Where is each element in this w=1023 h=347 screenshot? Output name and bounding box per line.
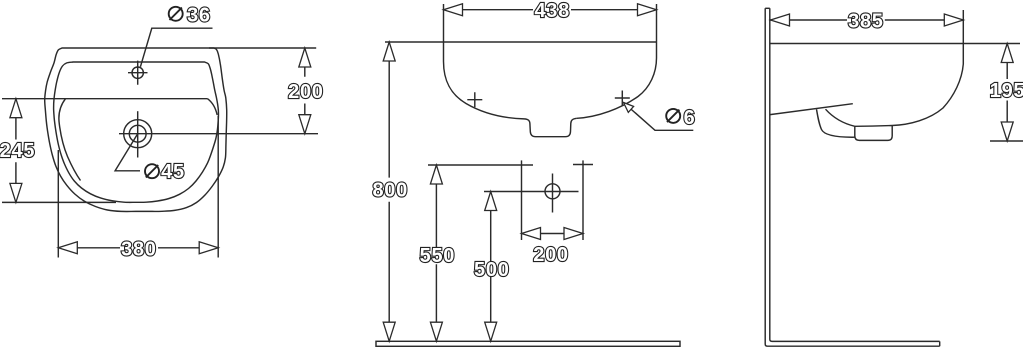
dimension 438 right extension line: [656, 4, 658, 42]
dimension 245 line: [15, 99, 17, 203]
basin deck line (back ledge edge / 245 top extension): [2, 98, 208, 100]
leader line to Ø36: [140, 28, 212, 67]
dimension 385 right extension line: [962, 10, 964, 44]
svg-text:195: 195: [990, 80, 1023, 102]
dimension 380 arrow right: [199, 242, 218, 254]
dimension 550 top extension line: [428, 164, 533, 166]
dimension 438 arrow right: [638, 4, 657, 16]
dimension 500 arrow down: [485, 322, 497, 341]
dimension 200 arrow left (middle): [522, 228, 541, 240]
dimension 195 arrow up: [1001, 44, 1013, 63]
Ø36 diameter symbol: [169, 7, 183, 21]
svg-text:380: 380: [121, 238, 156, 260]
svg-text:36: 36: [187, 5, 211, 27]
dimension 195 bottom extension line: [990, 140, 1023, 142]
svg-text:245: 245: [0, 140, 35, 162]
svg-text:500: 500: [474, 259, 509, 281]
dimension 380 arrow left: [58, 242, 77, 254]
dimension 550 arrow up: [430, 165, 442, 184]
fixing hole cross left: [467, 92, 482, 107]
svg-text:45: 45: [161, 161, 185, 183]
dimension 245 arrow up: [10, 99, 22, 118]
dimension 438 arrow left: [444, 4, 463, 16]
dimension 200 arrow right (middle): [564, 228, 583, 240]
fixing hole cross right: [615, 91, 630, 106]
dimension 800 line: [388, 42, 390, 341]
svg-text:438: 438: [534, 0, 569, 22]
dimension 438 left extension line: [443, 4, 445, 42]
leader line to Ø45: [115, 134, 140, 171]
underside diagonal line: [770, 104, 853, 115]
dimension 550 line: [435, 165, 437, 341]
svg-text:6: 6: [684, 107, 696, 129]
sink side drain trap: [855, 126, 892, 141]
dimension 200 line (middle): [522, 233, 584, 235]
dimension 200 arrow down (left view): [299, 115, 311, 134]
mounting hole circle: [545, 184, 560, 199]
drain inner circle: [129, 125, 146, 142]
Ø6 diameter symbol: [666, 109, 680, 123]
tick on right extension: [573, 164, 593, 166]
dimension 500 arrow up: [485, 192, 497, 211]
svg-text:800: 800: [372, 180, 407, 202]
dimension 385 arrow left: [771, 14, 790, 26]
sink front outline left: [444, 42, 525, 119]
sink side right edge and bowl sweep: [855, 44, 964, 127]
dimension 245 bottom extension line: [2, 201, 116, 203]
dimension 195 arrow down: [1001, 122, 1013, 141]
leader arrow at fixing hole: [624, 103, 634, 113]
dimension 385 arrow right: [944, 14, 963, 26]
drain vertical centerline: [137, 111, 139, 157]
dimension 500 extension line (hole centerline): [484, 191, 579, 193]
dimension 385 line: [771, 19, 964, 21]
mounting hole vertical centerline: [552, 174, 554, 213]
sink top edge line (800 top extension): [385, 41, 657, 43]
dimension 200 top extension line (left view): [209, 47, 316, 49]
dimension 800 arrow up: [383, 42, 395, 61]
faucet hole crosshair: [128, 61, 148, 85]
dimension 200 line (left view): [304, 48, 306, 134]
bowl bottom outer curve: [817, 109, 855, 137]
sink front outline right: [577, 42, 657, 118]
wall floor right cap: [939, 341, 941, 346]
svg-text:550: 550: [420, 245, 455, 267]
Ø45 diameter symbol: [145, 164, 159, 178]
wall line inner: [770, 8, 940, 341]
dimension 245 arrow down: [10, 183, 22, 202]
basin inner rim outline: [54, 62, 219, 202]
dimension 200 left extension line (middle): [521, 160, 523, 240]
wall line outer: [765, 8, 940, 346]
dimension 380 line: [58, 247, 218, 249]
dimension 550 arrow down: [430, 322, 442, 341]
dimension 438 line: [444, 9, 657, 11]
faucet hole circle: [132, 67, 143, 78]
dimension 500 line: [490, 192, 492, 342]
bowl edge right curve: [208, 99, 218, 115]
bowl bottom inner curve: [826, 109, 855, 126]
drain outer circle: [124, 120, 152, 148]
dimension 200 right extension line (middle): [582, 160, 584, 240]
bowl edge left curve: [59, 99, 81, 181]
sink top edge line (side, 195 top extension): [770, 43, 1020, 45]
dimension 800 arrow down: [383, 322, 395, 341]
dimension 380 left extension line: [57, 150, 59, 258]
floor slab (front view): [376, 341, 680, 346]
dimension 195 line: [1006, 44, 1008, 142]
svg-text:200: 200: [288, 81, 323, 103]
sink front drain: [524, 118, 577, 136]
dimension 200 arrow up (left view): [299, 48, 311, 67]
svg-text:200: 200: [533, 244, 568, 266]
drain horizontal centerline (200 bottom extension): [119, 133, 318, 135]
basin outer outline: [45, 48, 227, 211]
wall top cap: [765, 7, 770, 9]
leader line to Ø6: [624, 103, 694, 131]
svg-text:385: 385: [848, 11, 883, 33]
dimension 380 right extension line: [217, 116, 219, 258]
